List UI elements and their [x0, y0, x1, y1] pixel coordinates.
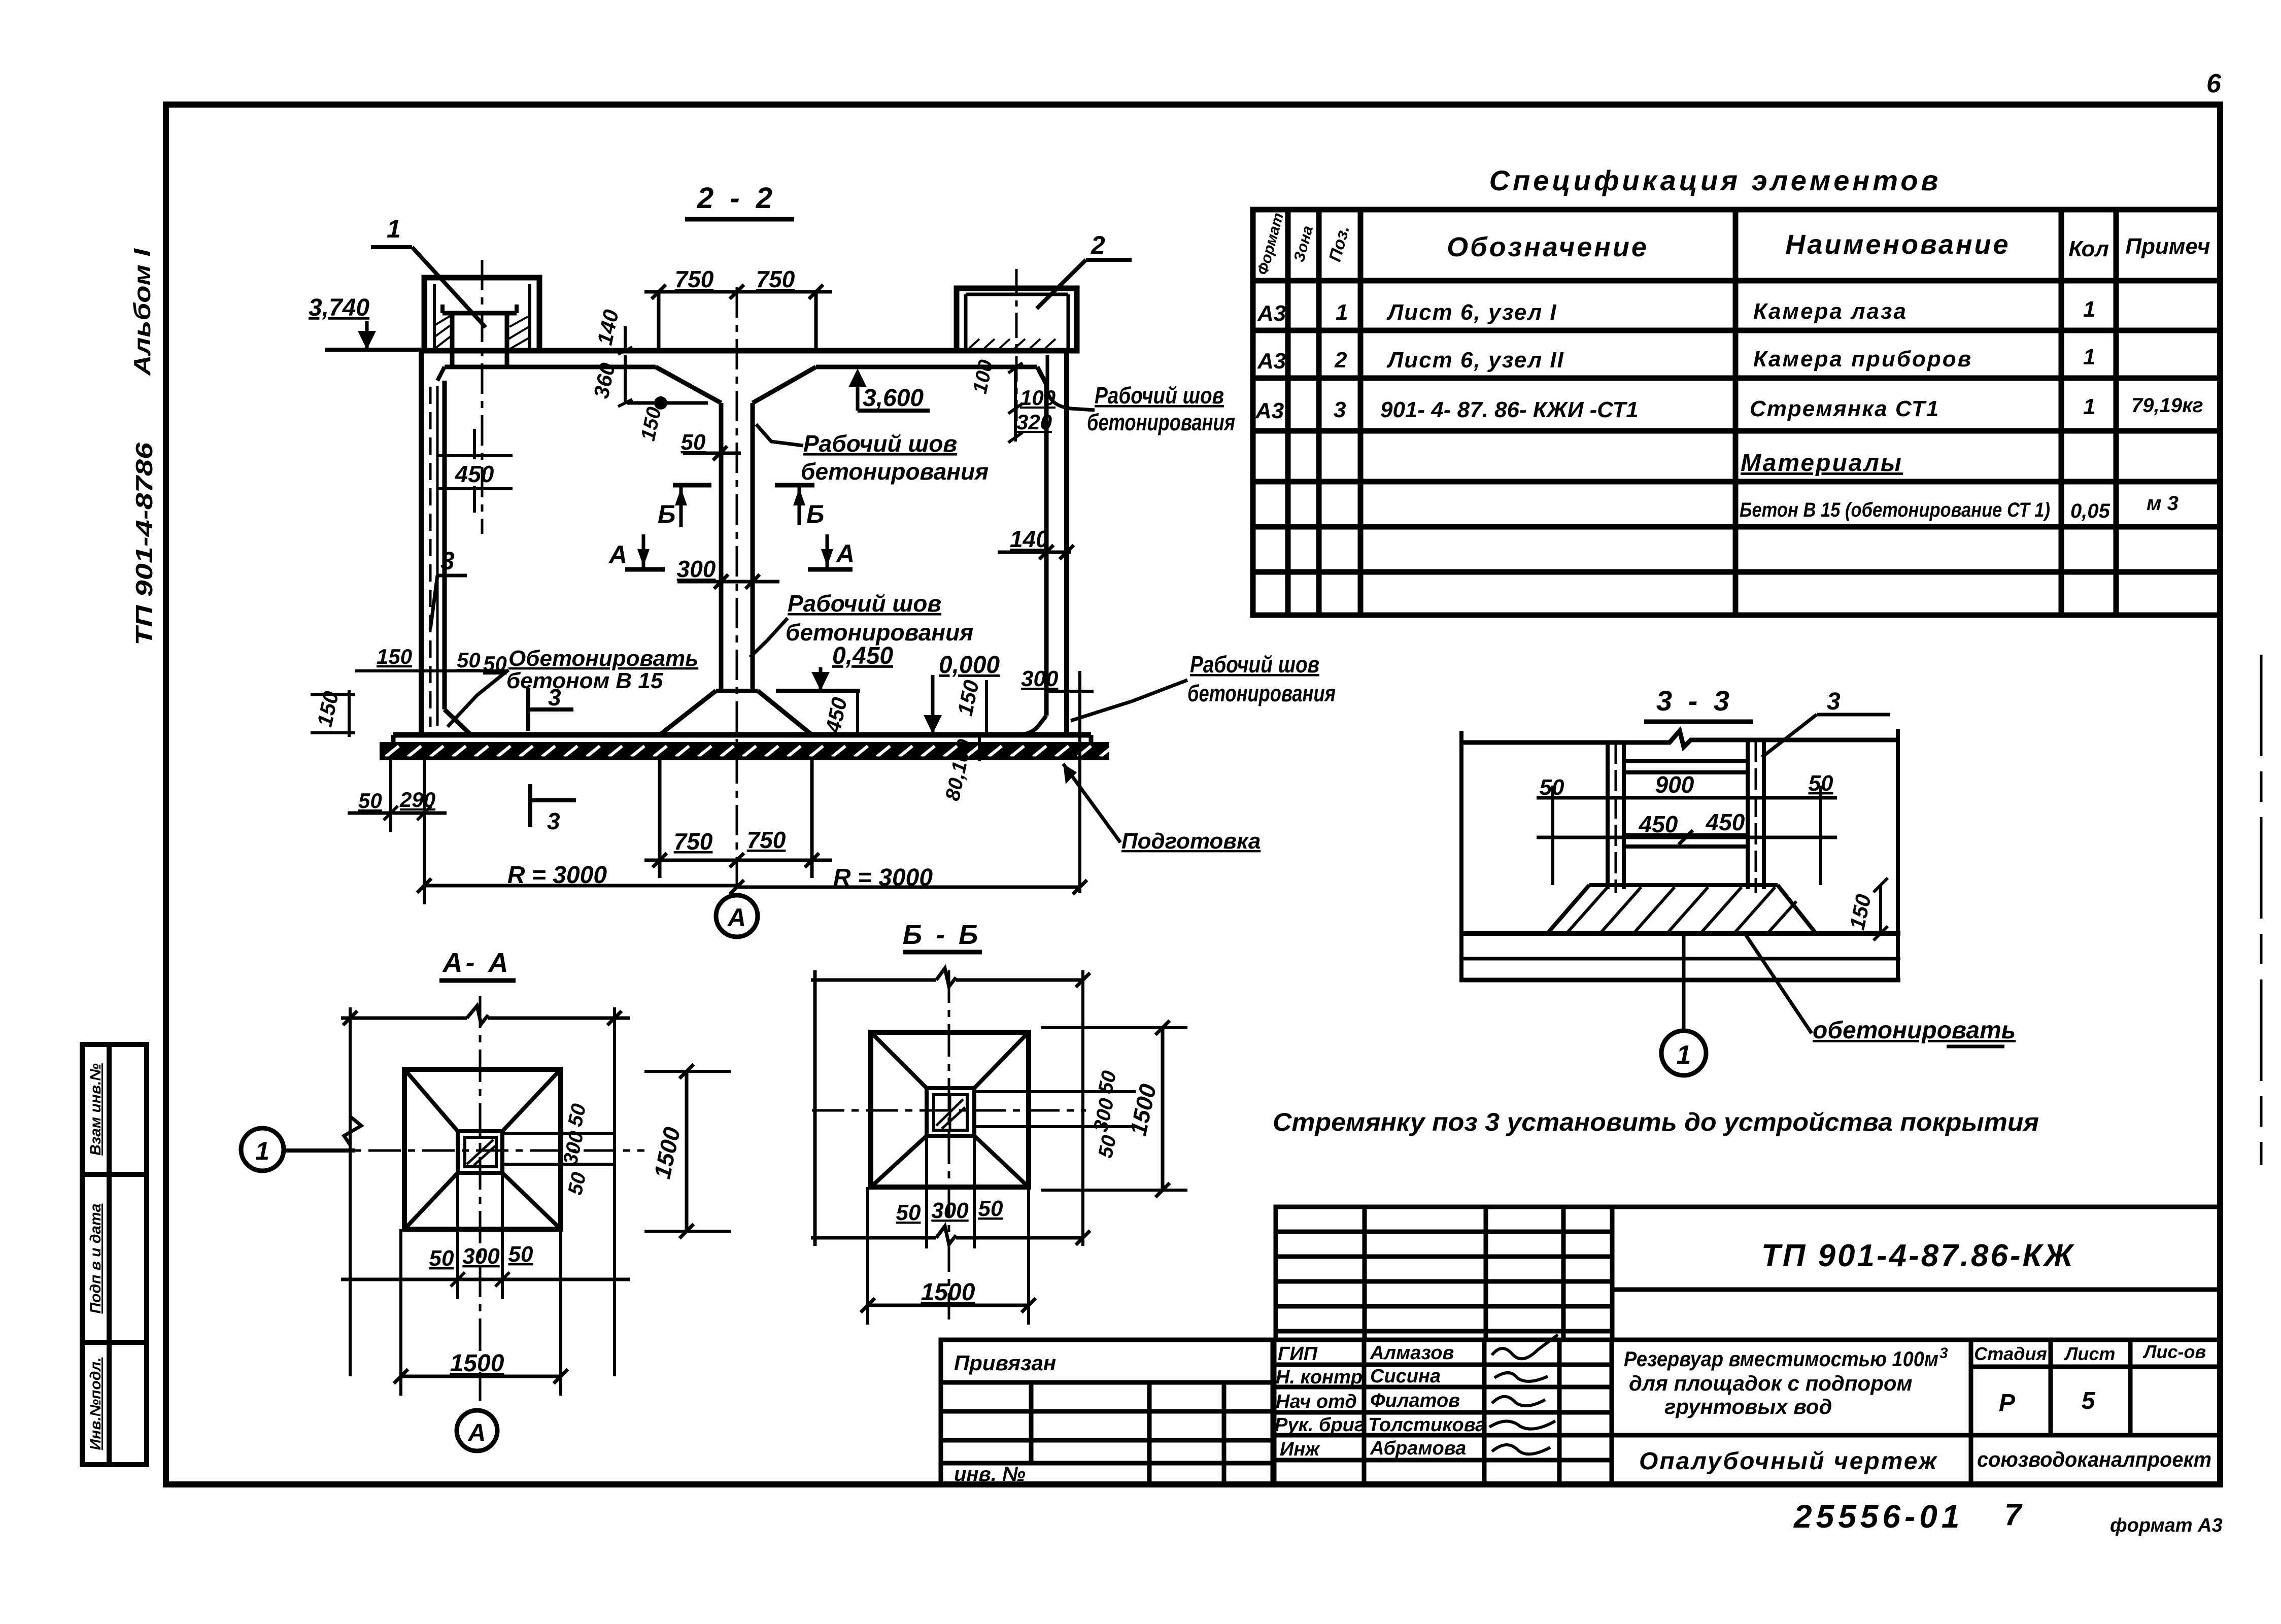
svg-text:3 - 3: 3 - 3 — [1656, 685, 1733, 717]
section mark Б right — [775, 485, 824, 528]
dim 1500 right — [644, 1064, 731, 1238]
svg-text:Лист: Лист — [2064, 1343, 2116, 1364]
svg-text:Рук. бриг: Рук. бриг — [1275, 1414, 1365, 1436]
svg-text:2 - 2: 2 - 2 — [697, 182, 776, 215]
spec row Бетон В15 — [1740, 492, 2178, 522]
stage cells — [1612, 1340, 2220, 1484]
svg-text:1: 1 — [1677, 1040, 1691, 1070]
leader 3 top — [1762, 688, 1890, 757]
svg-text:бетонирования: бетонирования — [1187, 680, 1336, 706]
svg-text:ТП 901-4-87.86-КЖ: ТП 901-4-87.86-КЖ — [1761, 1238, 2075, 1273]
svg-text:1: 1 — [387, 215, 401, 243]
sheet frame — [166, 105, 2220, 1484]
svg-text:1: 1 — [2083, 394, 2095, 419]
svg-text:А3: А3 — [1255, 398, 1284, 423]
left wall — [421, 351, 471, 736]
manhole chamber pos1 — [424, 278, 539, 368]
svg-text:А: А — [835, 539, 855, 568]
level 0,450 — [776, 642, 893, 735]
level 3,740 — [309, 294, 421, 350]
privyazan block — [941, 1340, 1274, 1484]
stage labels — [1974, 1341, 2206, 1364]
VIEW_AA — [241, 948, 731, 1451]
dim 50 column top — [681, 430, 741, 460]
svg-text:50: 50 — [681, 430, 706, 455]
svg-text:Лис-ов: Лис-ов — [2142, 1341, 2206, 1362]
dim 80 100 podgotovka — [941, 737, 979, 803]
dim R=3000 right — [730, 864, 1087, 894]
hatched bed — [1549, 885, 1815, 932]
dim 300 column — [677, 556, 779, 589]
dim 750 750 top — [644, 285, 832, 351]
extension verticals — [1081, 970, 1084, 1246]
dim 360 haunch — [589, 355, 632, 407]
section mark Б left — [658, 485, 711, 528]
dim 50 250 bottom left — [348, 760, 447, 832]
section cut 3 upper — [528, 684, 573, 731]
dim 450 manhole — [437, 429, 513, 513]
dim R=3000 left — [417, 760, 737, 904]
center column — [660, 403, 812, 735]
svg-text:бетонирования: бетонирования — [801, 458, 989, 485]
column centreline — [736, 287, 738, 895]
svg-text:750: 750 — [747, 827, 786, 853]
leader 1 — [371, 215, 486, 327]
ladder rail left — [1608, 742, 1624, 893]
svg-text:ГИП: ГИП — [1278, 1343, 1318, 1365]
dim 140 roof — [593, 308, 632, 354]
ladder rail right — [1748, 741, 1764, 893]
svg-text:Камера приборов: Камера приборов — [1753, 347, 1972, 371]
datum circle A — [457, 1410, 497, 1451]
svg-text:320: 320 — [1016, 410, 1052, 434]
svg-text:Обозначение: Обозначение — [1447, 232, 1649, 262]
column square — [458, 1131, 502, 1173]
svg-text:2: 2 — [1091, 231, 1105, 259]
dim line top — [811, 968, 1090, 987]
svg-text:3: 3 — [1827, 688, 1841, 715]
svg-text:50: 50 — [508, 1242, 533, 1267]
dim line bottom 50 300 50 — [341, 1173, 630, 1299]
svg-text:А: А — [727, 903, 746, 932]
svg-text:Альбом I: Альбом I — [129, 248, 155, 377]
dim 1500 bottom — [394, 1229, 568, 1396]
right small dims 50 300 50 — [974, 1069, 1136, 1160]
slab top line with break — [1461, 731, 1898, 747]
svg-text:300: 300 — [462, 1244, 500, 1269]
svg-text:Рабочий шов: Рабочий шов — [1190, 651, 1319, 678]
svg-text:450: 450 — [455, 461, 494, 487]
svg-text:0,05: 0,05 — [2070, 500, 2110, 522]
dim 150 far left — [311, 689, 355, 737]
dim 100 320 right wall — [969, 358, 1056, 443]
spec table grid — [1253, 210, 2220, 615]
bottom dim line — [811, 1226, 1090, 1245]
svg-text:750: 750 — [674, 828, 713, 855]
svg-text:Толстикова: Толстикова — [1368, 1414, 1486, 1436]
spec row 2 — [1257, 345, 2095, 374]
centreline vertical — [948, 970, 950, 1319]
podgotovka label — [1063, 764, 1261, 854]
svg-text:А: А — [468, 1419, 486, 1446]
centreline horizontal — [812, 1109, 1086, 1112]
svg-text:Н. контр: Н. контр — [1276, 1367, 1363, 1388]
svg-text:140: 140 — [1010, 526, 1049, 552]
svg-text:1500: 1500 — [921, 1279, 975, 1306]
svg-text:3: 3 — [548, 684, 561, 710]
svg-text:Опалубочный чертеж: Опалубочный чертеж — [1639, 1448, 1938, 1475]
svg-text:450: 450 — [1706, 809, 1745, 835]
svg-text:3,740: 3,740 — [309, 294, 369, 321]
dim 140 right wall — [998, 526, 1074, 559]
signatures scribbles — [1489, 1335, 1558, 1454]
svg-text:150: 150 — [377, 645, 412, 668]
svg-text:Нач отд: Нач отд — [1276, 1391, 1357, 1412]
svg-text:900: 900 — [1655, 771, 1694, 798]
svg-text:Стремянка СТ1: Стремянка СТ1 — [1750, 396, 1939, 421]
svg-text:Камера лаза: Камера лаза — [1753, 299, 1908, 324]
svg-text:300: 300 — [1021, 666, 1059, 691]
labels 50 300 50 bottom — [896, 1136, 1003, 1248]
level line with dot — [627, 396, 708, 443]
svg-text:79,19кг: 79,19кг — [2131, 394, 2203, 417]
NOTE_TEXT — [1273, 1108, 2039, 1136]
svg-text:Стремянку поз 3 установить: Стремянку поз 3 установить до устройства… — [1273, 1108, 2039, 1136]
svg-text:Бетон В 15 (обетонирование СТ: Бетон В 15 (обетонирование СТ 1) — [1740, 499, 2050, 521]
svg-text:Наименование: Наименование — [1785, 229, 2010, 260]
section mark А right — [808, 534, 855, 569]
svg-text:бетонирования: бетонирования — [1087, 409, 1235, 435]
svg-text:Б: Б — [806, 500, 824, 528]
svg-text:7: 7 — [2004, 1498, 2023, 1532]
svg-text:50: 50 — [1094, 1069, 1120, 1096]
svg-text:0,450: 0,450 — [832, 642, 893, 669]
svg-text:1: 1 — [2083, 297, 2095, 322]
svg-text:Подготовка: Подготовка — [1121, 829, 1261, 854]
svg-text:3: 3 — [1939, 1345, 1948, 1362]
svg-text:3: 3 — [440, 547, 455, 575]
svg-text:Инв.№подл.: Инв.№подл. — [87, 1358, 104, 1450]
svg-text:м 3: м 3 — [2147, 492, 2178, 515]
level 0,000 — [924, 652, 1000, 734]
dim 150 right bottom — [953, 678, 986, 734]
svg-text:300: 300 — [931, 1198, 969, 1223]
note rabochiy shov right top — [1047, 355, 1235, 435]
svg-text:Сисина: Сисина — [1370, 1366, 1441, 1387]
svg-text:100: 100 — [1020, 386, 1056, 410]
SPEC_TABLE — [1253, 164, 2220, 615]
footing diagonals — [871, 1032, 1029, 1187]
paper edge shadow — [2260, 655, 2263, 1165]
footing square — [404, 1069, 561, 1229]
footing square — [871, 1032, 1029, 1187]
dim 150 right — [1845, 878, 1888, 940]
svg-text:Спецификация элементов: Спецификация элементов — [1489, 164, 1942, 196]
svg-text:Привязан: Привязан — [954, 1351, 1056, 1375]
obetonirovat note left — [448, 646, 698, 727]
svg-text:Абрамова: Абрамова — [1370, 1438, 1466, 1459]
svg-text:для площадок с подпором: для площадок с подпором — [1629, 1371, 1913, 1395]
podgotovka layer — [380, 744, 1113, 758]
dim 750 750 bottom — [644, 760, 832, 878]
column square — [927, 1088, 974, 1136]
ladder rung lower — [1624, 835, 1748, 847]
instrument chamber pos2 — [957, 288, 1077, 351]
svg-text:750: 750 — [675, 266, 714, 292]
svg-text:Материалы: Материалы — [1741, 450, 1903, 477]
svg-text:50: 50 — [429, 1246, 454, 1271]
datum circle A bottom — [716, 895, 758, 937]
svg-text:50: 50 — [358, 789, 382, 813]
column core hatched — [465, 1137, 496, 1167]
svg-text:Взам инв.№: Взам инв.№ — [87, 1063, 104, 1155]
svg-text:Рабочий шов: Рабочий шов — [803, 430, 957, 457]
svg-text:0,000: 0,000 — [939, 652, 1000, 679]
spec row 1 — [1257, 297, 2095, 326]
svg-text:25556-01: 25556-01 — [1793, 1498, 1963, 1535]
dim 900 — [1537, 771, 1837, 885]
svg-text:50: 50 — [1094, 1133, 1120, 1160]
staff names — [1275, 1342, 1486, 1460]
dim 450 450 — [1537, 809, 1837, 844]
manhole centreline — [481, 260, 484, 534]
dims 150 50 50 left — [355, 645, 507, 675]
svg-text:50: 50 — [564, 1170, 590, 1197]
svg-text:А- А: А- А — [442, 948, 512, 978]
svg-text:6: 6 — [2206, 69, 2222, 98]
svg-text:50: 50 — [564, 1102, 590, 1129]
svg-text:А3: А3 — [1257, 349, 1286, 374]
datum circle 1 left — [241, 1128, 355, 1171]
svg-text:Примеч: Примеч — [2126, 234, 2210, 259]
centreline vertical — [479, 996, 482, 1401]
dim 300 right wall bottom — [1021, 666, 1094, 893]
svg-text:1: 1 — [1336, 300, 1348, 325]
right small dims 50 300 50 — [502, 1102, 615, 1197]
svg-text:3: 3 — [547, 808, 560, 834]
svg-text:Подп в и дата: Подп в и дата — [87, 1204, 104, 1314]
footing diagonals — [404, 1069, 561, 1229]
svg-text:901- 4- 87. 86- КЖИ -СТ1: 901- 4- 87. 86- КЖИ -СТ1 — [1380, 397, 1639, 422]
svg-text:300: 300 — [677, 556, 716, 582]
svg-text:50: 50 — [457, 648, 481, 672]
spec row 3 — [1255, 394, 2203, 423]
svg-text:Рабочий шов: Рабочий шов — [788, 590, 941, 617]
svg-text:Лист 6, узел II: Лист 6, узел II — [1386, 348, 1564, 373]
bottom slab — [393, 735, 1091, 759]
svg-text:Рабочий шов: Рабочий шов — [1095, 382, 1224, 409]
svg-text:формат А3: формат А3 — [2110, 1515, 2223, 1536]
note rabochiy shov lower — [750, 590, 973, 657]
svg-text:инв. №: инв. № — [954, 1463, 1026, 1485]
left vertical dim — [813, 970, 817, 1246]
section mark А left — [608, 534, 665, 569]
svg-text:Лист 6, узел I: Лист 6, узел I — [1386, 300, 1557, 325]
column core hatched — [934, 1095, 967, 1130]
extension verticals — [349, 1007, 352, 1376]
staff table — [1273, 1340, 2220, 1484]
note rabochiy shov right bottom — [1071, 651, 1336, 721]
svg-text:3,600: 3,600 — [863, 385, 924, 412]
svg-text:грунтовых вод: грунтовых вод — [1664, 1395, 1832, 1418]
svg-text:750: 750 — [756, 266, 795, 292]
svg-text:Б - Б: Б - Б — [903, 920, 981, 950]
svg-text:1: 1 — [2083, 345, 2095, 369]
svg-text:союзводоканалпроект: союзводоканалпроект — [1977, 1447, 2211, 1471]
SECTION_33 — [1459, 685, 2016, 1075]
svg-text:Б: Б — [658, 500, 675, 528]
svg-text:1500: 1500 — [450, 1350, 504, 1377]
svg-text:Филатов: Филатов — [1370, 1390, 1460, 1411]
section cut 3 lower — [530, 784, 576, 834]
svg-text:50: 50 — [978, 1196, 1003, 1221]
datum circle 1 — [1661, 933, 1706, 1075]
centreline horizontal — [315, 1149, 644, 1152]
leader 3 ladder — [430, 547, 467, 629]
svg-text:2: 2 — [1334, 348, 1347, 373]
leader 2 — [1037, 231, 1132, 309]
obetonirovat label — [1746, 935, 2016, 1046]
svg-text:бетонирования: бетонирования — [786, 619, 973, 646]
chamber2 centreline — [1015, 269, 1018, 421]
svg-text:А3: А3 — [1257, 301, 1286, 326]
note rabochiy shov upper — [756, 424, 989, 485]
SECTION_22 — [309, 182, 1336, 937]
svg-text:3: 3 — [1334, 397, 1346, 422]
svg-text:ТП 901-4-8786: ТП 901-4-8786 — [131, 442, 157, 646]
level 3,600 — [848, 368, 930, 412]
svg-text:50: 50 — [896, 1200, 921, 1225]
svg-text:5: 5 — [2082, 1388, 2096, 1414]
ladder rung top — [1624, 761, 1748, 772]
LEFT_MARGIN — [82, 248, 157, 1465]
svg-text:Р: Р — [1999, 1390, 2016, 1416]
ground lines — [1459, 931, 1900, 936]
dim 1500 right — [1041, 1021, 1187, 1197]
svg-text:450: 450 — [1639, 811, 1678, 837]
project description — [1624, 1345, 1948, 1418]
right wall — [1017, 351, 1067, 735]
VIEW_BB — [811, 920, 1187, 1325]
svg-text:Алмазов: Алмазов — [1370, 1342, 1454, 1364]
svg-text:1: 1 — [255, 1137, 269, 1165]
svg-text:Обетонировать: Обетонировать — [508, 646, 698, 671]
svg-text:Резервуар вместимостью 100м: Резервуар вместимостью 100м — [1624, 1347, 1938, 1371]
svg-text:А: А — [608, 540, 627, 569]
svg-text:Кол: Кол — [2068, 236, 2109, 261]
TITLE_BLOCK — [941, 1207, 2220, 1485]
stamp strip box — [82, 1044, 147, 1465]
dim line top — [341, 1006, 630, 1025]
svg-text:обетонировать: обетонировать — [1813, 1017, 2016, 1044]
dim 1500 bottom — [861, 1187, 1036, 1325]
FOOTER — [1793, 1498, 2223, 1536]
svg-text:Стадия: Стадия — [1974, 1343, 2047, 1364]
svg-text:Инж: Инж — [1280, 1439, 1320, 1460]
revision table — [1276, 1207, 2220, 1340]
roof slab — [421, 351, 1071, 403]
side boundary lines — [1459, 731, 1463, 979]
